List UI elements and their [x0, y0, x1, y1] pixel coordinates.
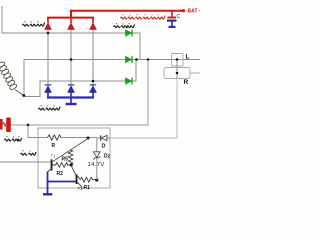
- B+ bus corner: [70, 10, 72, 18]
- zener diode Dz: [93, 152, 100, 158]
- svg-text:L: L: [186, 54, 190, 61]
- node R5 bottom: [70, 163, 73, 166]
- capacitor bottom plate: [167, 20, 177, 22]
- diode positive D1: [47, 18, 49, 23]
- resistor box R: [164, 68, 190, 79]
- T2 collector: [78, 176, 81, 180]
- brush outer (cropped): [0, 119, 3, 130]
- svg-text:C: C: [177, 14, 181, 20]
- svg-text:BAT +: BAT +: [188, 9, 201, 15]
- wire rectifier column2: [70, 30, 72, 86]
- svg-text:T2: T2: [78, 186, 84, 191]
- label negative diodes (arabic): [39, 107, 61, 110]
- transistor T2: [76, 174, 78, 184]
- node lamp: [176, 58, 179, 61]
- brush inner: [6, 118, 11, 133]
- resistor R series: [48, 135, 62, 140]
- label positive diodes (arabic): [23, 23, 45, 27]
- node field tap: [27, 124, 30, 127]
- wire rectifier column1: [47, 30, 49, 86]
- B+ bus lower red: [47, 17, 94, 19]
- svg-text:14.7V: 14.7V: [88, 162, 105, 168]
- ground stem: [70, 99, 72, 104]
- node phase2 junction: [70, 58, 73, 61]
- wire phase1 left edge: [1, 6, 3, 33]
- B+ terminal arrow: [180, 10, 185, 12]
- wire phase1 horizontal: [2, 32, 126, 34]
- T1 emitter diagonal: [48, 168, 53, 173]
- wire rectifier column3: [92, 30, 94, 86]
- resistor R1: [80, 177, 96, 182]
- ground bar: [66, 103, 77, 105]
- wire D out: [108, 137, 110, 139]
- wire lamp column: [108, 79, 177, 139]
- node resistor: [176, 72, 179, 75]
- wire T1 base from left edge: [0, 161, 51, 163]
- ground bus blue: [47, 96, 94, 98]
- wire phase3 loop: [24, 81, 126, 97]
- resistor R2: [53, 163, 70, 168]
- wire lamp down: [176, 61, 178, 79]
- node collector top: [87, 137, 90, 140]
- node excitation join1: [135, 58, 138, 61]
- node coil junction: [22, 94, 25, 97]
- B+ bus upper red: [71, 10, 182, 12]
- wire node to diode D: [97, 137, 101, 139]
- svg-text:R2: R2: [57, 171, 64, 177]
- diode excitation E1: [126, 30, 132, 37]
- diode negative D4: [45, 84, 51, 85]
- wire emitter blue T1: [47, 172, 49, 195]
- wire node to T2: [71, 166, 76, 175]
- svg-text:D: D: [102, 144, 106, 150]
- diode negative D6: [90, 84, 96, 85]
- svg-text:R: R: [52, 143, 56, 149]
- label excitation (arabic): [114, 24, 135, 27]
- transistor T1: [51, 159, 53, 170]
- regulator box: [38, 128, 110, 188]
- capacitor branch red stem: [171, 12, 173, 17]
- diode positive D2: [70, 18, 72, 23]
- wire field line: [11, 60, 149, 125]
- ground bar blue regulator: [43, 193, 52, 195]
- diode positive D3: [92, 18, 94, 23]
- svg-text:R5: R5: [62, 157, 69, 163]
- wire E2 out: [133, 59, 201, 61]
- brush spring: [3, 123, 7, 127]
- wire R to node: [61, 137, 97, 139]
- wire R out right: [190, 72, 200, 74]
- svg-text:T1: T1: [51, 154, 57, 159]
- capacitor stem blue: [171, 22, 173, 27]
- diode D (points left): [101, 135, 107, 140]
- node excitation join2: [147, 58, 150, 61]
- wire E1 out: [133, 33, 141, 60]
- label regulator (arabic) above base wire: [21, 152, 37, 155]
- wire field tap down into box: [28, 125, 48, 138]
- label capacitor warning (red arabic): [121, 16, 166, 20]
- diode excitation E2: [126, 56, 132, 63]
- svg-text:R1: R1: [84, 185, 91, 191]
- lamp box L: [172, 54, 184, 67]
- stator coil: [0, 61, 23, 96]
- wire phase2 riser: [24, 60, 126, 96]
- label inside slip rings (arabic): [5, 138, 22, 141]
- wire E3 out riser: [133, 60, 137, 81]
- wire zener branch upper: [96, 139, 98, 152]
- svg-text:Dz: Dz: [104, 154, 111, 160]
- capacitor top plate: [168, 17, 177, 19]
- svg-text:R: R: [184, 79, 189, 86]
- T2 emitter: [78, 182, 83, 188]
- diode excitation E3: [126, 78, 132, 85]
- wire T1 collector diagonal: [53, 139, 88, 162]
- capacitor ground bar: [169, 26, 176, 28]
- node phase1 junction: [47, 32, 50, 35]
- resistor R5 vertical coil: [68, 150, 73, 165]
- diode negative D5: [68, 84, 74, 85]
- node phase3 junction: [92, 80, 95, 83]
- wire base blue T2: [48, 181, 76, 183]
- node R1 right: [95, 178, 98, 181]
- wire zener lower: [96, 158, 98, 180]
